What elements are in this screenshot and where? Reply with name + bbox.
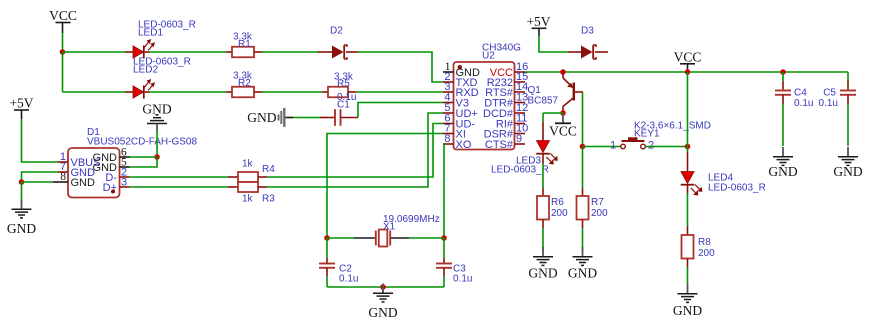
svg-text:2: 2 (648, 140, 654, 152)
diode D3 (568, 26, 608, 60)
svg-text:0.1u: 0.1u (794, 98, 813, 109)
svg-text:U2: U2 (482, 51, 495, 62)
node Q1 collector junction (560, 110, 566, 116)
wire R1 to D2 (262, 51, 318, 53)
power port VCC mid-right (674, 50, 702, 73)
wire VCC rail down to key row (687, 72, 689, 147)
svg-text:VCC: VCC (49, 8, 77, 23)
power port VCC below Q1 (549, 113, 577, 139)
wire crystal right (409, 237, 444, 239)
svg-text:1k: 1k (242, 159, 254, 170)
IC D1 VBUS052CD-FAH-GS08 (58, 127, 197, 198)
wire LED1 to R1 (150, 51, 226, 53)
wire U2 pin7 XI to crystal column (327, 134, 443, 239)
power port +5V left (9, 96, 33, 120)
node crystal left (324, 235, 330, 241)
crystal X1 19.0699MHz (354, 214, 440, 247)
wire R3 to U2 pin5 UD+ (267, 113, 443, 187)
svg-text:GND: GND (568, 266, 597, 281)
wire +5V to D1 pin1 (22, 119, 59, 162)
power port +5V top-right (526, 14, 550, 36)
wire U2 pin8 XO to crystal column (443, 144, 444, 238)
wire VCC to LED1 (63, 51, 126, 53)
node C4 junction (780, 69, 786, 75)
svg-text:Q1: Q1 (528, 85, 542, 96)
wire crystal left (327, 237, 354, 239)
capacitor C1 0.1u (320, 92, 358, 126)
ground GND below +5V (7, 200, 36, 237)
svg-text:C1: C1 (337, 100, 350, 111)
wire D1 pin2 D- to R4 (130, 176, 229, 178)
svg-text:LED-0603_R: LED-0603_R (708, 183, 766, 194)
wire LED3 to R6 (542, 154, 544, 164)
wire R7 column (582, 147, 584, 188)
node crystal right (441, 235, 447, 241)
svg-text:R2: R2 (238, 78, 251, 89)
svg-text:8: 8 (60, 171, 66, 183)
LED LED1 LED-0603_R (125, 20, 196, 59)
wire collector to LED3 column (543, 112, 563, 114)
wire C2 to bottom rail (326, 276, 328, 287)
svg-text:R1: R1 (238, 39, 251, 50)
ground flag GND (C1) (247, 108, 293, 127)
svg-text:GND: GND (7, 221, 36, 236)
resistor R2 3.3k (226, 71, 262, 98)
diode D2 (318, 26, 358, 60)
switch KEY1 K2-3.6x6.1_SMD (610, 121, 711, 152)
LED LED4 LED-0603_R (681, 172, 766, 196)
wire down to C2 (326, 238, 328, 258)
wire to key pin1 (583, 146, 621, 148)
wire R2 to R5 (262, 91, 322, 93)
svg-text:LED1: LED1 (138, 28, 163, 39)
node bottom gnd junction (380, 284, 386, 290)
svg-text:LED-0603_R: LED-0603_R (491, 165, 549, 176)
node LED4 column junction (685, 144, 691, 150)
ground GND below R7 (568, 247, 597, 281)
wire U2 pin16 VCC rail (525, 71, 848, 73)
op IC U2 CH340G (443, 43, 528, 152)
svg-text:CTS#: CTS# (485, 139, 514, 151)
wire VCC stem down (62, 33, 64, 52)
wire D1 pin7 to left column (22, 172, 59, 182)
wire R8 to GND (687, 267, 689, 284)
wire D1 pin3 D+ to R3 (130, 186, 229, 188)
ground GND below R8 (673, 284, 702, 318)
wire LED4 to R8 (687, 185, 689, 193)
svg-text:R7: R7 (591, 197, 604, 208)
resistor R1 3.3k (226, 32, 262, 58)
svg-text:GND: GND (673, 303, 702, 318)
svg-text:R8: R8 (698, 237, 711, 248)
node VCC rail junction (685, 69, 691, 75)
node Q1 emitter junction (560, 69, 566, 75)
LED LED2 LED-0603_R (125, 57, 191, 99)
capacitor C3 0.1u (436, 258, 472, 285)
svg-text:C5: C5 (823, 88, 836, 99)
svg-text:9: 9 (516, 133, 522, 145)
svg-text:X1: X1 (383, 222, 396, 233)
capacitor C5 0.1u (819, 72, 856, 146)
capacitor C2 0.1u (319, 258, 358, 285)
wire D1 pin8 (22, 181, 54, 183)
svg-text:200: 200 (698, 248, 715, 259)
wire R4 to U2 pin6 UD- (267, 124, 443, 178)
svg-text:R5: R5 (337, 79, 350, 90)
resistor R8 200 (682, 227, 716, 268)
node VCC junction (60, 49, 66, 55)
svg-text:D2: D2 (330, 26, 343, 37)
svg-text:GND: GND (768, 164, 797, 179)
node D1 gnd junction (154, 154, 160, 160)
svg-text:0.1u: 0.1u (819, 98, 838, 109)
resistor R3 1k (238, 182, 275, 205)
svg-text:KEY1: KEY1 (634, 129, 660, 140)
wire LED4 lead (687, 147, 689, 153)
wire LED2 to R2 (150, 91, 226, 93)
svg-text:VCC: VCC (674, 50, 702, 65)
wire D1 pin6 (130, 156, 158, 158)
wire R6 to GND (542, 228, 544, 251)
wire LED3 column (542, 113, 544, 122)
svg-text:1: 1 (610, 140, 616, 152)
svg-text:GND: GND (71, 177, 96, 189)
wire C3 to bottom rail (443, 276, 445, 287)
ground GND below R6 (528, 247, 557, 281)
ground GND above D1 (pins 5,6) (142, 102, 171, 132)
wire VCC column down to LED2 row (62, 52, 64, 92)
node key pin1 junction (580, 144, 586, 150)
wire bottom rail C2-C3 (327, 286, 444, 288)
LED LED3 LED-0603_R (491, 122, 558, 176)
capacitor C4 0.1u (775, 72, 813, 146)
svg-text:0.1u: 0.1u (339, 274, 358, 285)
svg-text:R6: R6 (551, 197, 564, 208)
wire +5V to D3 (539, 36, 568, 52)
svg-text:0.1u: 0.1u (453, 274, 472, 285)
svg-text:XO: XO (456, 139, 472, 151)
wire R5 to U2 pin3 RXD (356, 91, 443, 93)
node GND tie left (19, 179, 25, 185)
svg-text:200: 200 (591, 208, 608, 219)
ground GND below C4 (768, 147, 797, 179)
svg-text:VCC: VCC (549, 124, 577, 139)
svg-text:VBUS052CD-FAH-GS08: VBUS052CD-FAH-GS08 (87, 137, 197, 148)
wire D2 to U2 pin2 TXD (358, 52, 443, 82)
svg-text:R4: R4 (262, 164, 275, 175)
resistor R4 1k (238, 159, 275, 183)
wire GND to C1 (293, 117, 320, 119)
svg-text:D3: D3 (581, 26, 594, 37)
svg-text:GND: GND (247, 110, 276, 125)
wire to LED2 (63, 91, 126, 93)
svg-text:R3: R3 (262, 194, 275, 205)
svg-text:GND: GND (833, 164, 862, 179)
wire down to GND left (21, 182, 23, 204)
svg-text:GND: GND (368, 305, 397, 320)
svg-text:LED2: LED2 (133, 65, 158, 76)
wire Q1 base down to key row (582, 92, 584, 147)
resistor R5 3.3k (322, 72, 356, 98)
resistor R7 200 (577, 188, 609, 229)
wire down to C3 (443, 238, 445, 258)
wire D1 pin5 (130, 157, 158, 167)
wire GND stem to D1 pins (156, 131, 158, 158)
svg-text:GND: GND (528, 266, 557, 281)
svg-text:200: 200 (551, 208, 568, 219)
svg-text:+5V: +5V (526, 14, 550, 29)
wire key pin2 to LED4 column (646, 146, 688, 148)
svg-text:BC857: BC857 (528, 96, 559, 107)
wire R7 to GND (582, 228, 584, 251)
ground GND below crystal (368, 284, 397, 321)
ground GND below C5 (833, 147, 862, 179)
power port VCC top-left (49, 8, 77, 33)
svg-text:3: 3 (121, 177, 127, 189)
transistor Q1 BC857 (528, 72, 584, 113)
wire C1 to U2 pin4 V3 (358, 103, 443, 118)
svg-text:+5V: +5V (9, 96, 33, 111)
svg-text:C4: C4 (794, 88, 807, 99)
resistor R6 200 (537, 188, 568, 229)
svg-text:1k: 1k (242, 194, 254, 205)
svg-text:8: 8 (444, 133, 450, 145)
